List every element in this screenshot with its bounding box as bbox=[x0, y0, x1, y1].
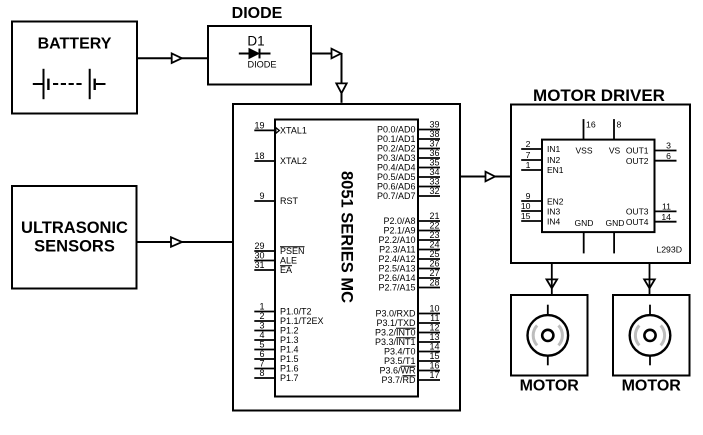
svg-text:2: 2 bbox=[526, 139, 531, 149]
svg-text:1: 1 bbox=[526, 160, 531, 170]
svg-text:IN1: IN1 bbox=[547, 144, 561, 154]
svg-text:P1.7: P1.7 bbox=[280, 373, 299, 383]
svg-text:P2.3/A11: P2.3/A11 bbox=[379, 245, 415, 255]
svg-text:DIODE: DIODE bbox=[247, 60, 276, 70]
svg-text:26: 26 bbox=[429, 259, 439, 269]
svg-text:PSEN: PSEN bbox=[280, 246, 305, 256]
svg-text:P1.5: P1.5 bbox=[280, 354, 299, 364]
svg-text:36: 36 bbox=[429, 148, 439, 158]
svg-text:XTAL1: XTAL1 bbox=[280, 126, 307, 136]
svg-text:9: 9 bbox=[526, 191, 531, 201]
svg-text:17: 17 bbox=[429, 370, 439, 380]
svg-text:EA: EA bbox=[280, 265, 292, 275]
svg-text:BATTERY: BATTERY bbox=[38, 36, 112, 53]
svg-text:ALE: ALE bbox=[280, 256, 297, 266]
svg-text:P3.6/WR: P3.6/WR bbox=[379, 366, 416, 376]
svg-text:8051 SERIES MC: 8051 SERIES MC bbox=[338, 171, 356, 303]
svg-text:OUT4: OUT4 bbox=[626, 217, 649, 227]
svg-text:MOTOR: MOTOR bbox=[520, 378, 580, 395]
svg-text:L293D: L293D bbox=[656, 245, 682, 255]
svg-text:3: 3 bbox=[259, 321, 264, 331]
svg-text:25: 25 bbox=[429, 249, 439, 259]
svg-text:P0.3/AD3: P0.3/AD3 bbox=[377, 153, 416, 163]
svg-text:38: 38 bbox=[429, 129, 439, 139]
svg-text:P2.0/A8: P2.0/A8 bbox=[383, 216, 415, 226]
svg-text:34: 34 bbox=[429, 167, 439, 177]
svg-text:12: 12 bbox=[429, 323, 439, 333]
svg-text:EN2: EN2 bbox=[547, 197, 564, 207]
svg-text:6: 6 bbox=[666, 151, 671, 161]
svg-text:9: 9 bbox=[259, 191, 264, 201]
svg-text:37: 37 bbox=[429, 139, 439, 149]
svg-text:P0.4/AD4: P0.4/AD4 bbox=[377, 163, 416, 173]
svg-text:23: 23 bbox=[429, 230, 439, 240]
svg-text:D1: D1 bbox=[247, 34, 264, 49]
svg-text:35: 35 bbox=[429, 158, 439, 168]
svg-text:5: 5 bbox=[259, 340, 264, 350]
svg-text:XTAL2: XTAL2 bbox=[280, 156, 307, 166]
svg-text:32: 32 bbox=[429, 186, 439, 196]
svg-text:22: 22 bbox=[429, 221, 439, 231]
svg-text:EN1: EN1 bbox=[547, 165, 564, 175]
svg-text:8: 8 bbox=[617, 120, 622, 130]
svg-text:2: 2 bbox=[259, 311, 264, 321]
svg-text:8: 8 bbox=[259, 368, 264, 378]
svg-text:GND: GND bbox=[606, 218, 625, 228]
svg-text:10: 10 bbox=[429, 304, 439, 314]
svg-text:P2.1/A9: P2.1/A9 bbox=[383, 226, 415, 236]
svg-text:28: 28 bbox=[429, 278, 439, 288]
svg-text:3: 3 bbox=[666, 141, 671, 151]
svg-text:31: 31 bbox=[254, 260, 264, 270]
svg-text:19: 19 bbox=[254, 121, 264, 131]
svg-text:SENSORS: SENSORS bbox=[34, 238, 115, 256]
svg-text:VSS: VSS bbox=[575, 146, 592, 156]
svg-text:21: 21 bbox=[429, 211, 439, 221]
svg-text:MOTOR: MOTOR bbox=[622, 378, 682, 395]
svg-text:P2.5/A13: P2.5/A13 bbox=[378, 264, 415, 274]
svg-text:P3.5/T1: P3.5/T1 bbox=[384, 356, 416, 366]
svg-text:P1.0/T2: P1.0/T2 bbox=[280, 307, 312, 317]
svg-text:P3.0/RXD: P3.0/RXD bbox=[375, 309, 416, 319]
svg-text:11: 11 bbox=[430, 313, 439, 323]
svg-text:P1.2: P1.2 bbox=[280, 326, 299, 336]
svg-text:7: 7 bbox=[259, 359, 264, 369]
svg-text:ULTRASONIC: ULTRASONIC bbox=[21, 219, 128, 237]
svg-text:P0.7/AD7: P0.7/AD7 bbox=[377, 191, 416, 201]
svg-text:10: 10 bbox=[521, 201, 531, 211]
svg-text:39: 39 bbox=[429, 120, 439, 130]
svg-text:27: 27 bbox=[429, 268, 439, 278]
svg-text:P1.6: P1.6 bbox=[280, 364, 299, 374]
svg-text:VS: VS bbox=[609, 146, 621, 156]
svg-text:RST: RST bbox=[280, 196, 299, 206]
svg-text:MOTOR DRIVER: MOTOR DRIVER bbox=[533, 86, 665, 105]
svg-text:24: 24 bbox=[429, 240, 439, 250]
svg-text:OUT2: OUT2 bbox=[626, 156, 649, 166]
svg-text:DIODE: DIODE bbox=[232, 5, 283, 22]
svg-text:18: 18 bbox=[254, 151, 264, 161]
svg-text:P3.2/INT0: P3.2/INT0 bbox=[375, 328, 416, 338]
svg-text:P0.2/AD2: P0.2/AD2 bbox=[377, 144, 416, 154]
svg-text:16: 16 bbox=[586, 120, 596, 130]
svg-text:14: 14 bbox=[429, 342, 439, 352]
svg-text:13: 13 bbox=[429, 332, 439, 342]
svg-text:OUT3: OUT3 bbox=[626, 207, 649, 217]
svg-text:6: 6 bbox=[259, 349, 264, 359]
svg-text:IN2: IN2 bbox=[547, 155, 561, 165]
svg-text:P3.4/T0: P3.4/T0 bbox=[384, 347, 416, 357]
svg-text:P1.3: P1.3 bbox=[280, 335, 299, 345]
svg-text:P2.6/A14: P2.6/A14 bbox=[378, 273, 415, 283]
svg-text:IN4: IN4 bbox=[547, 217, 561, 227]
svg-text:P2.7/A15: P2.7/A15 bbox=[378, 283, 415, 293]
svg-text:P0.0/AD0: P0.0/AD0 bbox=[377, 125, 416, 135]
svg-text:16: 16 bbox=[429, 361, 439, 371]
svg-text:IN3: IN3 bbox=[547, 207, 561, 217]
svg-text:15: 15 bbox=[429, 351, 439, 361]
svg-text:P2.2/A10: P2.2/A10 bbox=[378, 235, 415, 245]
svg-text:33: 33 bbox=[429, 177, 439, 187]
svg-text:P3.3/INT1: P3.3/INT1 bbox=[375, 337, 416, 347]
svg-text:P0.6/AD6: P0.6/AD6 bbox=[377, 182, 416, 192]
svg-text:4: 4 bbox=[259, 330, 264, 340]
svg-text:P0.5/AD5: P0.5/AD5 bbox=[377, 172, 416, 182]
svg-text:P1.4: P1.4 bbox=[280, 345, 299, 355]
svg-text:P1.1/T2EX: P1.1/T2EX bbox=[280, 316, 324, 326]
svg-text:11: 11 bbox=[662, 202, 671, 212]
svg-text:29: 29 bbox=[254, 241, 264, 251]
svg-text:P2.4/A12: P2.4/A12 bbox=[378, 254, 415, 264]
svg-text:15: 15 bbox=[521, 211, 531, 221]
svg-text:OUT1: OUT1 bbox=[626, 146, 649, 156]
svg-text:30: 30 bbox=[254, 251, 264, 261]
svg-text:P0.1/AD1: P0.1/AD1 bbox=[377, 134, 416, 144]
svg-text:7: 7 bbox=[526, 150, 531, 160]
svg-text:14: 14 bbox=[661, 212, 671, 222]
svg-text:P3.1/TXD: P3.1/TXD bbox=[376, 318, 416, 328]
svg-text:GND: GND bbox=[575, 218, 594, 228]
svg-text:P3.7/RD: P3.7/RD bbox=[381, 375, 416, 385]
svg-text:1: 1 bbox=[259, 302, 264, 312]
